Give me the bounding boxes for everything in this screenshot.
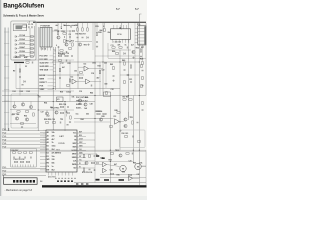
resistor R41 (130, 65, 131, 68)
ground below C9 (96, 46, 98, 47)
wire ic4 in (95, 164, 103, 166)
connector P12 pad 7 (33, 180, 35, 183)
transistor TR6 (124, 124, 127, 127)
wire cluster2 h (75, 41, 92, 43)
resistor R35 (79, 72, 82, 73)
svg-text:R27: R27 (141, 47, 144, 49)
svg-text:DEFECT: DEFECT (40, 82, 48, 84)
IC1 bottom pin 2 (51, 172, 53, 176)
diode D18 (97, 162, 99, 164)
capacitor C24 (67, 106, 69, 108)
bus left ribbon inner (8, 28, 9, 131)
node junction 11 (139, 95, 140, 96)
wire mid h5 (2, 101, 95, 103)
resistor row end R6 (30, 56, 33, 57)
resistor R97 (123, 99, 126, 100)
wire vertical bus x78 (77, 23, 79, 89)
transistor TR12 (45, 112, 48, 115)
resistor R98 (129, 99, 132, 100)
wire row R1 (18, 36, 35, 38)
wire above ic1 v1 (46, 110, 48, 112)
solder pad b4 (68, 180, 70, 182)
node junction 14 (38, 109, 39, 110)
wire bottom right h (100, 177, 146, 179)
svg-text:0 SERVO: 0 SERVO (14, 57, 22, 59)
diode D8 (87, 37, 89, 39)
node junction 16 (119, 121, 120, 122)
node P1-1 end tick (43, 129, 45, 132)
svg-text:R2 2k2: R2 2k2 (20, 39, 26, 41)
wire rc h2 (74, 121, 110, 123)
bottom-left block pin tick 3 (17, 165, 19, 167)
IC1 right pin 3 (77, 139, 95, 141)
connector P10 ladder rung 6 (138, 43, 145, 45)
wire ic2b-out (76, 81, 85, 83)
svg-text:4u7: 4u7 (131, 44, 134, 47)
transistor TR4 (132, 50, 135, 53)
capacitor C9 (96, 41, 98, 43)
svg-text:R65: R65 (102, 116, 105, 118)
wire top supply bus (33, 21, 146, 23)
resistor R8 (26, 62, 29, 63)
transistor TR15 (119, 154, 122, 157)
svg-text:R64: R64 (81, 118, 84, 121)
svg-text:MDS: MDS (79, 135, 82, 137)
IC1 left pin 8 (40, 155, 46, 157)
wire cluster2 v2 (82, 23, 84, 28)
bus ribbon tick 3 (4, 54, 9, 56)
IC1 right pin 11 (77, 167, 95, 169)
IC1 left pin 12 (40, 169, 46, 171)
svg-text:Bang&Olufsen: Bang&Olufsen (3, 3, 44, 10)
solder pad b5 (71, 180, 73, 182)
capacitor C1 (27, 26, 29, 28)
svg-text:10u: 10u (76, 114, 79, 116)
wire mid-left v1 (15, 64, 17, 89)
wire mid h1 (52, 61, 139, 63)
node junction 12 (94, 118, 95, 119)
IC6 top pin 4 (122, 25, 124, 29)
wire P3-2 (2, 171, 46, 173)
op-amp IC2b (72, 79, 76, 84)
vertical strip tick 8 (53, 74, 55, 76)
svg-text:MDP: MDP (79, 132, 82, 134)
svg-text:LD ON: LD ON (40, 75, 46, 77)
node junction 1 (38, 95, 39, 96)
node junction 10 (139, 61, 140, 62)
svg-text:D2: D2 (47, 152, 49, 154)
diode D7 (73, 30, 75, 32)
svg-text:Schematic B, Focus & Master Se: Schematic B, Focus & Master Servo (3, 14, 44, 17)
IC6 top pin 1 (113, 25, 115, 29)
IC1 bottom pin 4 (58, 172, 60, 176)
IC1 right pin 9 (77, 160, 95, 162)
connector P12 pad 1 (13, 180, 15, 183)
ground above IC1 (69, 121, 71, 122)
wire row R6 (18, 56, 35, 58)
svg-text:D0: D0 (47, 146, 49, 148)
svg-text:R90 C45: R90 C45 (122, 132, 129, 135)
resistor R14a (60, 50, 63, 51)
svg-text:R10: R10 (62, 31, 65, 33)
IC6 pin 6 (128, 39, 130, 43)
node dot cluster c (61, 28, 62, 29)
svg-text:R1 1k8: R1 1k8 (20, 35, 26, 37)
resistor R71 bottom-left (20, 161, 23, 162)
test point mark 2 (58, 177, 60, 179)
IC1 bottom pin 1 (48, 172, 50, 176)
solder pad b3 (64, 180, 66, 182)
resistor R42 (124, 80, 125, 83)
connector P10 pin 4 (135, 38, 138, 40)
relay box K1 (57, 97, 64, 102)
capacitor C2 (30, 26, 32, 28)
resistor R24 (112, 47, 115, 48)
capacitor C45 in br module (132, 136, 134, 138)
capacitor C25 (12, 113, 14, 115)
node junction 17 (139, 150, 140, 151)
svg-text:R20: R20 (98, 32, 101, 34)
diode D2 input row (15, 40, 17, 42)
svg-text:R33: R33 (68, 63, 71, 65)
IC1 left pin 4 (40, 142, 46, 144)
op-amp IC2a focus amp (84, 66, 88, 71)
diode D1 input row (15, 36, 17, 38)
IC1 right pin 8 (77, 157, 86, 159)
resistor R90 in br module (124, 136, 127, 137)
IC1 left pin 7 (40, 152, 46, 154)
svg-text:1k: 1k (52, 142, 54, 144)
svg-text:VCC: VCC (79, 160, 82, 162)
capacitor C13 (140, 55, 142, 57)
transistor TR9 (29, 105, 32, 108)
svg-text:100k: 100k (85, 97, 89, 99)
connector P10 ladder rung 4 (138, 37, 145, 39)
resistor R94 pre-driver (103, 113, 106, 114)
connector P7 pin 4 (50, 47, 52, 51)
svg-text:R86: R86 (117, 175, 120, 177)
bottom-left block pin tick 5 (22, 165, 24, 167)
wire row R5 (18, 52, 35, 54)
wire mid-center row 2 (50, 58, 54, 60)
test point mark 4 (65, 177, 67, 179)
svg-text:R45: R45 (110, 63, 113, 66)
wire mid-center row 1 (50, 55, 54, 57)
svg-text:R75 R76 C36: R75 R76 C36 (82, 172, 92, 174)
wire rc out (119, 121, 124, 123)
bottom-left block pin tick 2 (14, 165, 16, 167)
bottom-left block pin tick 7 (27, 165, 29, 167)
wire mid-center row 5 (50, 69, 54, 71)
node P1-5 end tick (43, 143, 45, 146)
IC1 left pin 6 (40, 149, 46, 151)
capacitor C23 (137, 121, 139, 123)
bottom-left block pin tick 8 (30, 165, 32, 167)
svg-text:R97 R98: R97 R98 (123, 96, 129, 98)
svg-text:22k: 22k (75, 25, 78, 27)
transistor TR7 (13, 105, 16, 108)
connector P10 laser unit (138, 26, 146, 45)
node dot cluster d (69, 41, 70, 42)
resistor R17 (87, 28, 88, 31)
wire ic2a out (88, 68, 103, 70)
svg-text:56k: 56k (52, 163, 55, 165)
svg-text:5-7: 5-7 (116, 7, 120, 11)
svg-text:C27: C27 (41, 112, 44, 114)
op-amp IC3 error amp (115, 119, 120, 124)
wire rc v (127, 112, 129, 118)
wire mid h3b (2, 90, 74, 92)
wire x135 top segment (134, 23, 136, 45)
diode D6 input row (15, 56, 17, 58)
svg-text:P4-3: P4-3 (27, 90, 31, 93)
capacitor C6 (77, 36, 79, 38)
capacitor C7 (82, 36, 84, 38)
connector P7 divider 1 (41, 28, 43, 48)
bus ribbon tick 1 (4, 31, 9, 33)
wire cluster2 v1 (77, 23, 79, 28)
IC1 servo signal processor box (46, 130, 77, 172)
resistor R36 (79, 77, 82, 78)
svg-text:R46: R46 (90, 92, 93, 95)
wire ic2a in (78, 66, 84, 68)
svg-text:33k: 33k (50, 107, 53, 109)
board edge grey line right (74, 182, 146, 184)
vertical strip tick 11 (53, 86, 55, 88)
svg-text:P1-1 ·: P1-1 · (3, 129, 8, 131)
capacitor C37 (89, 168, 91, 170)
wire vertical bus x103 (102, 23, 104, 96)
wire tr block v2 (22, 102, 24, 103)
capacitor C33 bottom-left (29, 157, 31, 159)
svg-text:14: 14 (119, 27, 121, 30)
wire vertical bus x120 (119, 50, 121, 151)
wire right chain v (142, 45, 144, 62)
wire module divider y57 (13, 59, 74, 61)
wire mid-center row b2 (48, 78, 54, 80)
connector P10 pin 3 (135, 35, 138, 37)
vertical strip tick 4 (53, 60, 55, 62)
solder pad b1 (57, 180, 59, 182)
wire top-left vertical bus (29, 28, 31, 56)
wire vertical bus x38 (37, 27, 39, 131)
ground cluster2 (88, 44, 90, 45)
capacitor C4 (69, 36, 71, 38)
resistor R60 bottom-left (12, 152, 15, 153)
connector P12 pad 2 (16, 180, 18, 183)
resistor R63 bottom-left (29, 152, 32, 153)
connector P10 shield bar (144, 26, 145, 44)
wire region-d h3 (100, 174, 139, 176)
transistor TR8 (21, 103, 24, 106)
connector P10 ladder rung 2 (138, 31, 145, 33)
IC1 right pin 2 (77, 136, 86, 138)
capacitor C36 (94, 155, 96, 157)
wire region-d h1 (95, 161, 133, 163)
capacitor C18b (69, 91, 71, 93)
svg-text:TR15: TR15 (115, 150, 119, 152)
vertical strip tick 5 (53, 63, 55, 65)
resistor R34b (69, 79, 70, 82)
wire vertical bus x53 (52, 47, 54, 130)
wire mid-center row b1 (48, 74, 54, 76)
capacitor C26b (65, 111, 67, 113)
wire ic5b out (133, 177, 140, 179)
bus ribbon tick 7 (4, 100, 9, 102)
wire P3-1 (2, 168, 46, 170)
svg-text:P1-5 ·: P1-5 · (3, 143, 8, 145)
test point mark 5 (68, 177, 70, 179)
svg-text:FE: FE (79, 163, 81, 165)
wire top cluster h1 (52, 30, 75, 32)
svg-text:4k7: 4k7 (52, 138, 55, 141)
resistor R76 (89, 154, 90, 157)
svg-text:6: 6 (103, 26, 104, 28)
resistor R38 mid right (106, 91, 107, 94)
bus left ribbon outer (4, 28, 6, 131)
vertical strip tick 1 (53, 49, 55, 51)
node junction 15 (110, 161, 111, 162)
svg-text:R28: R28 (140, 59, 143, 61)
svg-text:XLT: XLT (79, 156, 82, 158)
resistor R78 (83, 168, 84, 171)
wire row R4 (18, 48, 35, 50)
svg-text:P3-3 ·: P3-3 · (3, 174, 8, 176)
svg-text:4k7: 4k7 (97, 77, 100, 80)
wire mid h4 (2, 95, 146, 97)
wire bottom left frame stub (3, 175, 5, 178)
wire bottom h pair 2 (10, 151, 146, 153)
resistor R12 (72, 43, 73, 46)
resistor R14b (68, 48, 71, 49)
svg-text:IC3: IC3 (114, 116, 117, 118)
svg-text:C30 C31 C32: C30 C31 C32 (14, 159, 25, 161)
svg-text:TR3: TR3 (84, 44, 87, 46)
resistor R25 (119, 47, 122, 48)
IC6 pin 1 (112, 39, 114, 43)
resistor R32 (58, 60, 61, 61)
capacitor C17 (65, 60, 67, 62)
node junction 5 (102, 61, 103, 62)
wire P3-3 (2, 175, 46, 177)
connector P12 pad 4 (23, 180, 25, 183)
resistor R95 dark mark (96, 155, 99, 157)
svg-text:P10: P10 (137, 24, 140, 26)
resistor R13 (57, 31, 58, 34)
connector P10 pin 5 (135, 41, 138, 43)
op-amp IC4a (103, 162, 107, 167)
capacitor C12 (126, 47, 128, 49)
svg-text:330: 330 (52, 159, 55, 161)
op-amp IC4b (103, 168, 107, 173)
svg-text:1n5: 1n5 (66, 92, 69, 94)
bus ribbon tick 2 (4, 43, 9, 45)
test point mark 3 (61, 177, 63, 179)
wire mid fill v100 (99, 62, 101, 96)
svg-text:R5 560: R5 560 (20, 51, 26, 53)
ground right col (113, 80, 115, 81)
wire mid-center row 4 (50, 65, 54, 67)
resistor R70 bottom-left (14, 161, 17, 162)
resistor R75 (83, 154, 84, 157)
svg-text:TE: TE (79, 167, 81, 169)
wire tr block h2 (10, 123, 36, 125)
wire ic4a out (107, 165, 120, 167)
wire right vertical feed top tick (139, 13, 141, 15)
svg-text:C4: C4 (69, 33, 71, 36)
IC1 bottom pin 8 (71, 172, 73, 176)
svg-text:56k: 56k (86, 114, 89, 116)
svg-text:10k: 10k (74, 71, 77, 73)
svg-text:R3 100: R3 100 (20, 43, 26, 45)
bottom-left block pin tick 1 (12, 165, 14, 167)
IC1 left pin 9 (40, 159, 46, 161)
resistor R91 in br module (137, 141, 140, 142)
capacitor C40 (131, 153, 133, 155)
wire region-d h2 (141, 165, 146, 167)
transistor TR17 (78, 99, 81, 102)
resistor R51 (25, 111, 28, 112)
svg-text:R93 R94: R93 R94 (96, 110, 103, 113)
wire cluster v2 (57, 23, 59, 31)
IC1 left pin 11 (40, 166, 46, 168)
solder dash d3 (86, 183, 88, 184)
test point mark 1 (55, 177, 57, 179)
capacitor C3 (31, 62, 33, 64)
wire r21 up (104, 23, 106, 28)
svg-text:10k: 10k (63, 25, 66, 27)
wire right edge vertical lower (145, 150, 147, 185)
svg-text:FOC ERR: FOC ERR (40, 59, 49, 61)
svg-text:SLED -: SLED - (76, 108, 82, 110)
svg-text:C28: C28 (90, 104, 93, 106)
IC1 bottom pin 7 (68, 172, 70, 176)
wire right h y56 (95, 55, 139, 57)
connector P10 pin 2 (135, 31, 138, 33)
connector P12 pad 3 (20, 180, 22, 183)
svg-text:SERVO: SERVO (55, 153, 62, 155)
connector P7 divider 2 (44, 28, 46, 48)
connector P7 pin 3 (47, 47, 49, 51)
svg-text:22k: 22k (104, 63, 107, 65)
ground top cluster (58, 46, 60, 47)
wire rc h1 (74, 118, 114, 120)
svg-text:R12: R12 (71, 41, 74, 43)
IC1 right pin 6 (77, 150, 86, 152)
wire vertical bus x135 (134, 45, 136, 96)
capacitor C14 right chain (142, 69, 144, 71)
svg-text:C11: C11 (111, 45, 114, 47)
vertical strip tick 9 (53, 78, 55, 80)
svg-text:A2: A2 (47, 138, 49, 141)
wire mid-left v2 (19, 64, 21, 96)
svg-text:▫ Mechanism on page 5-8: ▫ Mechanism on page 5-8 (5, 190, 33, 192)
resistor R38b (99, 70, 100, 73)
wire above ic1 h (38, 109, 74, 111)
transistor TR18 (84, 103, 87, 106)
svg-text:LDON: LDON (79, 139, 83, 141)
resistor R9 (19, 69, 20, 72)
svg-text:2n2: 2n2 (47, 116, 50, 118)
IC6 pin 5 (125, 39, 127, 43)
svg-text:TR5: TR5 (130, 117, 133, 119)
transistor TR3 (78, 43, 81, 46)
vertical strip tick 2 (53, 52, 55, 54)
svg-text:P1-6 ·: P1-6 · (3, 147, 8, 149)
wire cluster2 v3 (87, 23, 89, 28)
capacitor C19 (90, 85, 92, 87)
diode D7b (24, 81, 26, 83)
